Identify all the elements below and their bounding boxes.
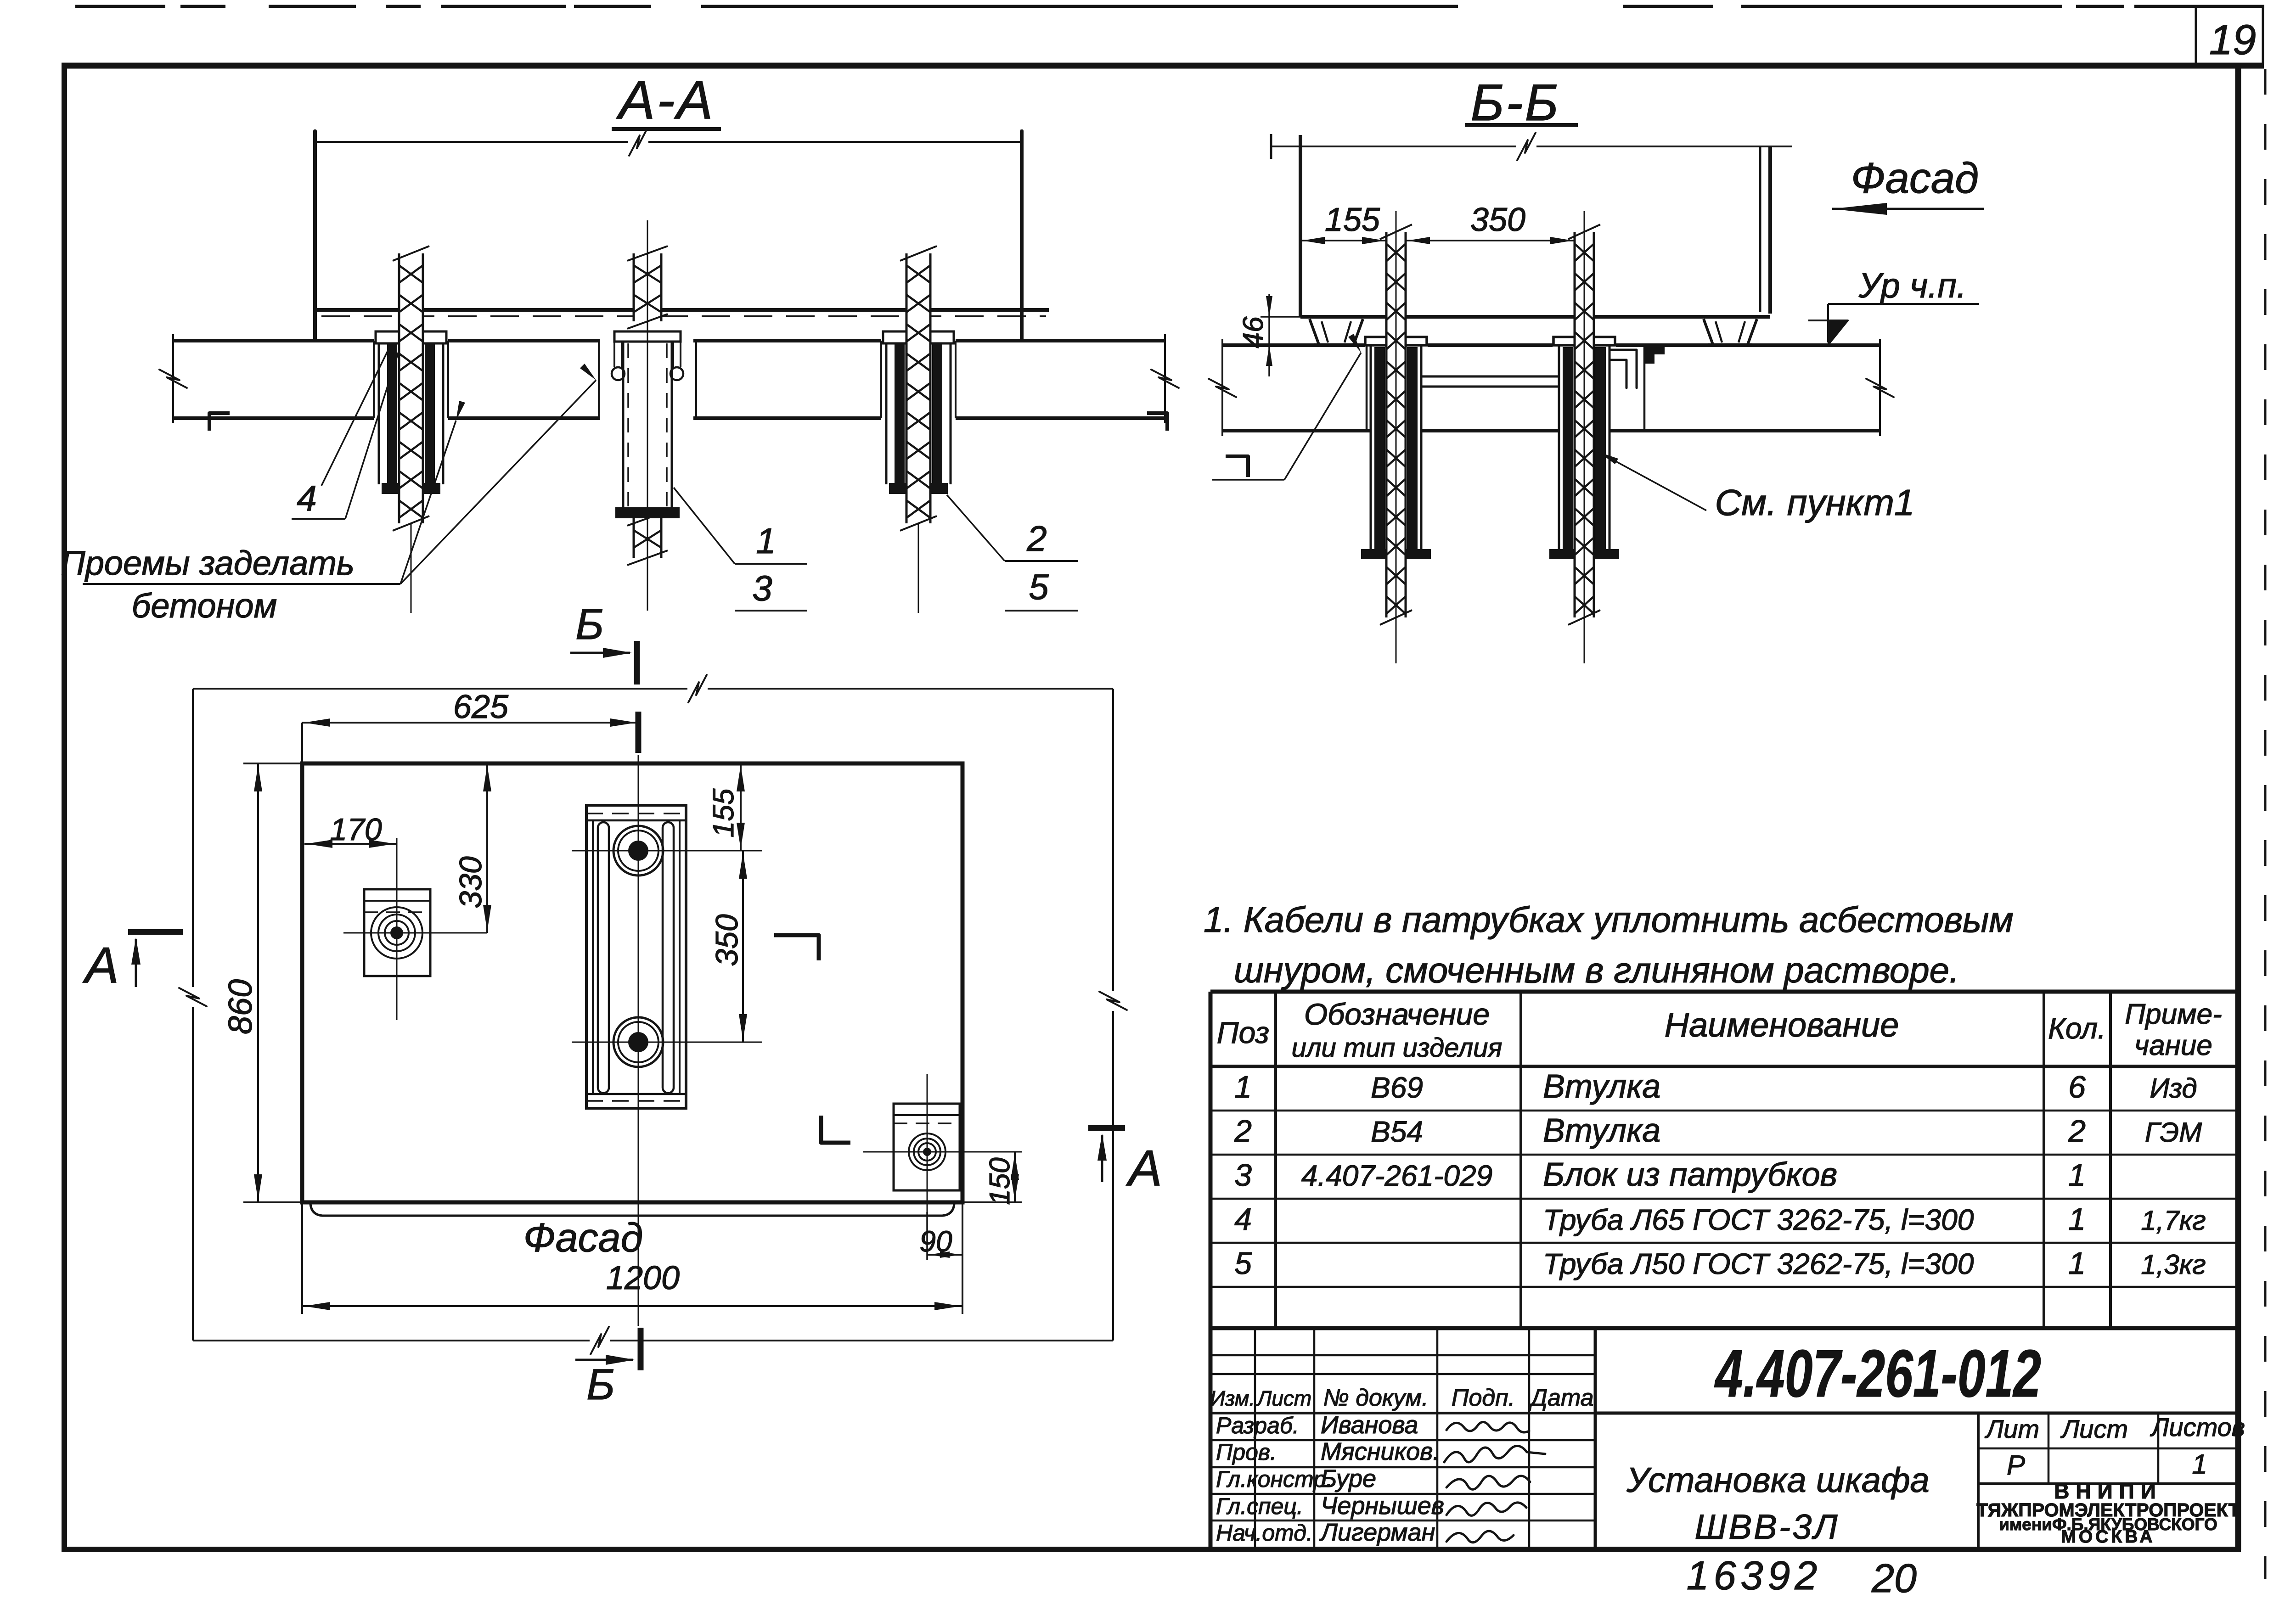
svg-text:90: 90 bbox=[919, 1225, 952, 1258]
svg-text:Втулка: Втулка bbox=[1543, 1112, 1660, 1149]
svg-text:Наименование: Наименование bbox=[1665, 1006, 1899, 1044]
svg-text:3: 3 bbox=[752, 568, 772, 608]
svg-text:860: 860 bbox=[222, 979, 259, 1034]
svg-text:Лист: Лист bbox=[2060, 1414, 2128, 1443]
svg-text:19: 19 bbox=[2209, 17, 2256, 63]
svg-text:Р: Р bbox=[2007, 1450, 2025, 1481]
svg-text:170: 170 bbox=[330, 812, 382, 847]
svg-text:3: 3 bbox=[1234, 1158, 1252, 1193]
svg-text:1: 1 bbox=[2068, 1202, 2086, 1237]
svg-text:Изд: Изд bbox=[2150, 1073, 2197, 1104]
svg-text:А-А: А-А bbox=[616, 70, 715, 130]
svg-text:Чернышев: Чернышев bbox=[1321, 1492, 1444, 1520]
svg-text:№ докум.: № докум. bbox=[1323, 1385, 1428, 1411]
svg-text:4.407-261-012: 4.407-261-012 bbox=[1714, 1336, 2041, 1411]
svg-text:6: 6 bbox=[2068, 1070, 2086, 1105]
svg-text:Гл.констр.: Гл.констр. bbox=[1216, 1466, 1333, 1492]
svg-text:бетоном: бетоном bbox=[132, 587, 277, 625]
svg-text:1. Кабели в патрубках уплот: 1. Кабели в патрубках уплотнить асбестов… bbox=[1204, 899, 2014, 940]
svg-text:350: 350 bbox=[709, 914, 744, 966]
svg-text:В69: В69 bbox=[1371, 1071, 1423, 1104]
svg-text:Установка шкафа: Установка шкафа bbox=[1626, 1461, 1930, 1500]
svg-text:Нач.отд.: Нач.отд. bbox=[1216, 1520, 1313, 1546]
svg-text:5: 5 bbox=[1234, 1246, 1252, 1281]
svg-text:МОСКВА: МОСКВА bbox=[2061, 1527, 2155, 1547]
svg-text:Проемы заделать: Проемы заделать bbox=[61, 544, 355, 582]
svg-text:330: 330 bbox=[453, 856, 488, 909]
svg-text:2: 2 bbox=[1234, 1114, 1252, 1149]
svg-text:16392: 16392 bbox=[1687, 1553, 1822, 1598]
svg-text:Подп.: Подп. bbox=[1452, 1385, 1515, 1411]
svg-text:Гл.спец.: Гл.спец. bbox=[1216, 1493, 1303, 1519]
svg-text:155: 155 bbox=[707, 788, 740, 837]
svg-text:1,7кг: 1,7кг bbox=[2141, 1205, 2206, 1236]
svg-text:Обозначение: Обозначение bbox=[1304, 997, 1490, 1031]
svg-text:Разраб.: Разраб. bbox=[1216, 1413, 1299, 1438]
svg-text:4: 4 bbox=[1234, 1202, 1252, 1237]
svg-text:Лигерман: Лигерман bbox=[1319, 1519, 1435, 1546]
svg-text:Приме-: Приме- bbox=[2125, 999, 2222, 1030]
svg-text:20: 20 bbox=[1871, 1555, 1917, 1599]
svg-text:Ур ч.п.: Ур ч.п. bbox=[1858, 266, 1967, 305]
svg-text:Дата: Дата bbox=[1528, 1385, 1593, 1411]
svg-text:Б-Б: Б-Б bbox=[1470, 74, 1560, 131]
svg-text:1: 1 bbox=[2192, 1449, 2207, 1480]
svg-text:Мясников.: Мясников. bbox=[1321, 1438, 1440, 1465]
svg-text:4.407-261-029: 4.407-261-029 bbox=[1301, 1159, 1492, 1192]
svg-text:4: 4 bbox=[297, 478, 316, 518]
svg-text:1: 1 bbox=[2068, 1246, 2086, 1281]
svg-text:350: 350 bbox=[1470, 202, 1525, 238]
svg-text:Блок из патрубков: Блок из патрубков bbox=[1543, 1156, 1837, 1193]
svg-text:Кол.: Кол. bbox=[2048, 1012, 2106, 1045]
svg-text:1200: 1200 bbox=[606, 1260, 680, 1296]
svg-text:чание: чание bbox=[2134, 1030, 2212, 1061]
svg-text:Труба Л65 ГОСТ 3262-75, l=30: Труба Л65 ГОСТ 3262-75, l=300 bbox=[1543, 1203, 1974, 1236]
svg-text:Втулка: Втулка bbox=[1543, 1068, 1660, 1105]
svg-text:шнуром, смоченным в глиняном: шнуром, смоченным в глиняном растворе. bbox=[1234, 950, 1959, 990]
svg-text:5: 5 bbox=[1029, 567, 1049, 607]
svg-text:Лист: Лист bbox=[1256, 1386, 1311, 1410]
svg-text:1: 1 bbox=[2068, 1158, 2086, 1193]
svg-text:155: 155 bbox=[1325, 202, 1380, 238]
svg-text:Б: Б bbox=[575, 600, 604, 649]
svg-text:Б: Б bbox=[586, 1360, 615, 1409]
svg-text:Труба Л50 ГОСТ 3262-75, l=30: Труба Л50 ГОСТ 3262-75, l=300 bbox=[1543, 1247, 1974, 1280]
svg-text:Лит: Лит bbox=[1985, 1414, 2039, 1443]
svg-text:2: 2 bbox=[1026, 518, 1047, 559]
svg-text:1: 1 bbox=[1234, 1070, 1252, 1105]
svg-text:ШВВ-3Л: ШВВ-3Л bbox=[1694, 1508, 1839, 1547]
svg-text:Иванова: Иванова bbox=[1321, 1411, 1418, 1439]
svg-text:1: 1 bbox=[756, 521, 776, 561]
svg-text:46: 46 bbox=[1238, 316, 1269, 348]
svg-text:А: А bbox=[82, 937, 118, 993]
svg-text:Фасад: Фасад bbox=[1851, 154, 1979, 202]
svg-text:См. пункт1: См. пункт1 bbox=[1715, 482, 1915, 523]
svg-text:Пров.: Пров. bbox=[1216, 1439, 1277, 1465]
svg-text:150: 150 bbox=[984, 1157, 1016, 1205]
svg-text:А: А bbox=[1125, 1140, 1162, 1196]
svg-text:Фасад: Фасад bbox=[523, 1215, 643, 1260]
svg-text:или тип изделия: или тип изделия bbox=[1292, 1033, 1503, 1063]
svg-text:625: 625 bbox=[453, 689, 509, 725]
svg-text:Изм.: Изм. bbox=[1210, 1386, 1255, 1410]
svg-text:2: 2 bbox=[2068, 1114, 2086, 1149]
svg-text:Листов: Листов bbox=[2150, 1413, 2245, 1442]
svg-text:Буре: Буре bbox=[1321, 1465, 1376, 1492]
svg-text:В54: В54 bbox=[1371, 1115, 1423, 1148]
svg-text:Поз: Поз bbox=[1217, 1016, 1269, 1049]
svg-text:ГЭМ: ГЭМ bbox=[2145, 1117, 2202, 1148]
svg-text:1,3кг: 1,3кг bbox=[2141, 1249, 2206, 1280]
